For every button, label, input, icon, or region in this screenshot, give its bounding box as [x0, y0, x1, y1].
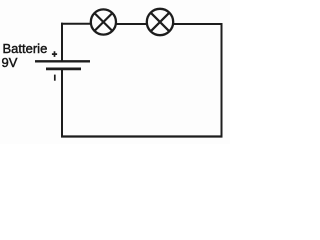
lamp L2 cross [151, 13, 170, 32]
svg-text:9V: 9V [2, 55, 18, 70]
wire right vertical [221, 23, 223, 138]
lamp L1 cross [95, 13, 113, 31]
wire left vertical upper (top corner to battery plus) [61, 23, 63, 62]
wire between lamps [115, 23, 147, 25]
battery B1 negative plate [46, 68, 81, 71]
wire top-left horizontal [61, 23, 92, 25]
wire left vertical lower (battery minus to bottom) [61, 69, 63, 138]
battery B1 positive plate [35, 60, 90, 62]
wire bottom horizontal [61, 135, 223, 137]
wire top-right horizontal [173, 23, 223, 25]
battery minus mark [54, 75, 56, 81]
lamp L2 circle [147, 9, 173, 35]
lamp L1 circle [91, 9, 116, 34]
svg-text:Batterie: Batterie [3, 41, 48, 56]
battery plus sign [52, 51, 57, 57]
